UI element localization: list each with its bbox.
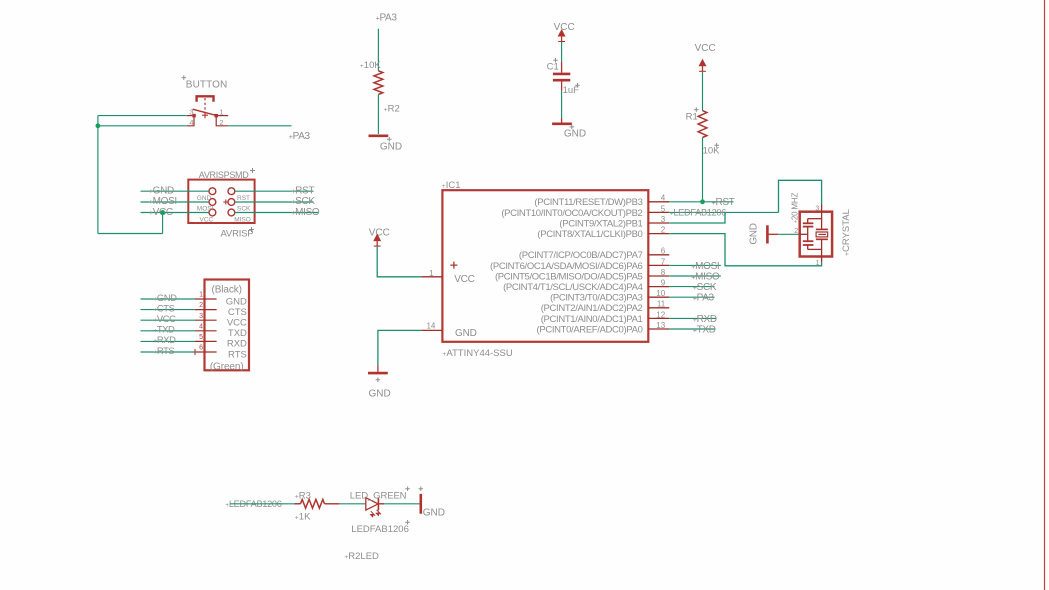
wire VCC row — [141, 319, 196, 321]
IC1 pin 11 PA2 — [648, 307, 669, 309]
svg-text:(PCINT9/XTAL2)PB1: (PCINT9/XTAL2)PB1 — [559, 218, 642, 229]
svg-text:(PCINT7/ICP/OC0B/ADC7)PA7: (PCINT7/ICP/OC0B/ADC7)PA7 — [519, 250, 643, 261]
svg-text:SCK: SCK — [237, 206, 251, 213]
wire PA3 to R2 — [377, 29, 379, 71]
svg-text:TXD: TXD — [228, 328, 247, 339]
svg-text:(PCINT0/AREF/ADC0)PA0: (PCINT0/AREF/ADC0)PA0 — [537, 324, 643, 335]
svg-text:+RXD: +RXD — [153, 334, 176, 345]
IC1 pin 13 PA0 — [648, 328, 669, 330]
svg-text:(PCINT10/INT0/OC0A/CKOUT)PB2: (PCINT10/INT0/OC0A/CKOUT)PB2 — [501, 208, 642, 219]
wire MOSI row — [141, 201, 210, 203]
IC1 pin 1 VCC — [421, 276, 442, 278]
svg-text:+RST: +RST — [712, 197, 735, 208]
svg-text:AVRISP: AVRISP — [221, 229, 254, 240]
svg-text:C1: C1 — [547, 62, 559, 73]
svg-text:+TXD: +TXD — [153, 324, 175, 335]
svg-text:+MISO: +MISO — [691, 272, 720, 283]
wire pin3 XTAL2 — [669, 212, 725, 223]
wire button pin2 to PA3 — [228, 125, 291, 127]
svg-text:2: 2 — [794, 228, 798, 235]
resonator Q1 C-CRYSTAL — [800, 205, 832, 263]
svg-text:(PCINT11/RESET/DW)PB3: (PCINT11/RESET/DW)PB3 — [534, 197, 642, 208]
svg-text:13: 13 — [656, 321, 665, 330]
wire TXD row — [141, 330, 196, 332]
svg-text:5: 5 — [661, 204, 666, 213]
svg-text:1: 1 — [219, 107, 223, 116]
wire VCC to R1 — [702, 72, 704, 111]
junction VCC — [160, 210, 165, 215]
IC1 pin 3 PB1 — [648, 222, 669, 224]
svg-text:10: 10 — [656, 289, 665, 298]
svg-text:4: 4 — [199, 323, 203, 330]
svg-text:RST: RST — [237, 195, 250, 202]
wire left vertical — [97, 116, 99, 234]
svg-text:12: 12 — [656, 310, 665, 319]
FTDI pin 6 RTS — [195, 351, 217, 353]
svg-text:+10K: +10K — [360, 60, 382, 71]
svg-text:LED_GREEN: LED_GREEN — [350, 490, 407, 501]
wire VCC row — [141, 212, 210, 214]
IC1 pin 2 PB0 — [648, 233, 669, 235]
svg-text:11: 11 — [657, 300, 666, 309]
svg-text:3: 3 — [189, 107, 193, 116]
IC1 pin 6 PA7 — [648, 254, 669, 256]
IC1 pin 12 PA1 — [648, 317, 669, 319]
IC1 pin 4 PB3 — [648, 201, 669, 203]
svg-text:GND: GND — [423, 508, 445, 519]
svg-text:5: 5 — [199, 334, 203, 341]
svg-text:RTS: RTS — [228, 349, 247, 360]
wire RST net — [669, 201, 733, 203]
wire PA3 (pin10) — [669, 296, 714, 298]
IC1 pin 9 PA4 — [648, 286, 669, 288]
svg-text:+R2: +R2 — [384, 104, 400, 115]
svg-text:14: 14 — [426, 322, 435, 331]
wire to button pin4 — [98, 125, 187, 127]
pushbutton BUTTON — [192, 96, 218, 118]
svg-text:+1K: +1K — [295, 512, 311, 523]
wire SCK — [669, 286, 714, 288]
wire VCC to pin1 — [377, 247, 421, 277]
svg-text:+RXD: +RXD — [693, 314, 717, 325]
wire CTS row — [141, 309, 196, 311]
svg-text:VCC: VCC — [227, 318, 247, 329]
FTDI pin 4 TXD — [195, 330, 217, 332]
svg-text:+GND: +GND — [153, 292, 177, 303]
wire SCK row — [235, 201, 314, 203]
svg-text:+CRYSTAL: +CRYSTAL — [841, 209, 852, 256]
svg-text:8: 8 — [661, 268, 666, 277]
resistor R3 — [294, 503, 300, 505]
button pin 4 — [187, 117, 194, 125]
svg-text:GND: GND — [226, 296, 247, 307]
svg-text:MISO: MISO — [234, 216, 251, 223]
wire pin14 to GND — [378, 330, 421, 365]
svg-text:(PCINT5/OC1B/MISO/DO/ADC5)PA5: (PCINT5/OC1B/MISO/DO/ADC5)PA5 — [495, 271, 643, 282]
IC1 pin 7 PA6 — [648, 264, 669, 266]
svg-text:3: 3 — [815, 206, 819, 213]
svg-text:4: 4 — [189, 118, 193, 127]
svg-text:10K: 10K — [703, 146, 721, 157]
wire R3 to LED — [339, 503, 366, 505]
IC1 pin 5 PB2 — [648, 211, 669, 213]
resistor R2 — [374, 71, 383, 95]
IC IC1 ATTINY44-SSU — [442, 190, 648, 342]
svg-text:+LEDFAB1206: +LEDFAB1206 — [670, 208, 726, 218]
svg-text:(PCINT3/T0/ADC3)PA3: (PCINT3/T0/ADC3)PA3 — [550, 293, 642, 304]
wire bottom to VCC net — [98, 233, 163, 235]
label BUTTON — [182, 75, 187, 80]
svg-text:LEDFAB1206: LEDFAB1206 — [351, 524, 409, 535]
capacitor C1 — [561, 62, 563, 73]
svg-text:GND: GND — [455, 328, 477, 339]
resistor R1 — [698, 111, 707, 138]
svg-text:GND: GND — [564, 128, 586, 139]
FTDI pin 3 VCC — [195, 319, 217, 321]
svg-text:+ATTINY44-SSU: +ATTINY44-SSU — [442, 348, 512, 359]
svg-text:7: 7 — [661, 257, 666, 266]
svg-text:9: 9 — [661, 279, 666, 288]
FTDI pin 2 CTS — [195, 309, 217, 311]
IC1 pin 10 PA3 — [648, 296, 669, 298]
svg-text:VCC: VCC — [369, 227, 390, 238]
svg-text:6: 6 — [199, 345, 203, 352]
wire GND row — [141, 298, 196, 300]
button pin 2 — [216, 117, 228, 125]
svg-text:+VCC: +VCC — [153, 313, 176, 324]
svg-text:CTS: CTS — [228, 307, 247, 318]
svg-text:4: 4 — [661, 194, 666, 203]
svg-text:(Black): (Black) — [211, 285, 241, 296]
svg-text:BUTTON: BUTTON — [186, 80, 228, 91]
svg-text:(PCINT1/AIN0/ADC1)PA1: (PCINT1/AIN0/ADC1)PA1 — [541, 314, 643, 325]
svg-text:(PCINT8/XTAL1/CLKI)PB0: (PCINT8/XTAL1/CLKI)PB0 — [537, 229, 642, 240]
svg-text:+MISO: +MISO — [291, 207, 320, 218]
wire GND to crystal pin2 — [778, 233, 799, 235]
svg-text:+TXD: +TXD — [693, 325, 716, 336]
wire GND row — [141, 190, 210, 192]
svg-text:+SCK: +SCK — [693, 282, 717, 293]
wire MISO — [669, 275, 721, 277]
svg-text:1: 1 — [199, 292, 203, 299]
connector FTDI header — [205, 280, 250, 373]
svg-text:2: 2 — [661, 226, 666, 235]
wire pin2 XTAL1 to crystal — [669, 234, 821, 266]
svg-text:+RTS: +RTS — [153, 345, 174, 356]
svg-text:GND: GND — [748, 223, 759, 244]
svg-text:+PA3: +PA3 — [376, 13, 398, 24]
svg-text:+PA3: +PA3 — [289, 131, 311, 142]
svg-text:+R2LED: +R2LED — [344, 551, 379, 562]
wire LED to GND — [384, 503, 420, 505]
svg-text:2: 2 — [219, 118, 223, 127]
ground (R2) — [369, 135, 389, 138]
svg-text:3: 3 — [661, 215, 666, 224]
svg-text:2: 2 — [199, 302, 203, 309]
wire RXD row — [141, 340, 196, 342]
svg-text:6: 6 — [661, 247, 666, 256]
button pin 3 — [187, 115, 193, 117]
svg-text:1: 1 — [429, 269, 434, 278]
svg-text:(PCINT4/T1/SCL/USCK/ADC4)PA4: (PCINT4/T1/SCL/USCK/ADC4)PA4 — [503, 282, 642, 293]
svg-text:+IC1: +IC1 — [442, 180, 461, 191]
junction RST — [700, 199, 705, 204]
svg-text:(PCINT6/OC1A/SDA/MOSI/ADC6)PA6: (PCINT6/OC1A/SDA/MOSI/ADC6)PA6 — [490, 261, 643, 272]
ground (C1) — [561, 118, 563, 123]
svg-text:AVRISPSMD: AVRISPSMD — [199, 170, 249, 180]
ground (LED) — [419, 494, 422, 514]
wire RXD — [669, 317, 716, 319]
svg-text:VCC: VCC — [200, 216, 214, 223]
svg-text:VCC: VCC — [554, 22, 575, 33]
wire button pin3 to left — [98, 115, 187, 117]
wire MISO row — [235, 212, 318, 214]
svg-text:RXD: RXD — [227, 339, 247, 350]
IC1 pin 8 PA5 — [648, 275, 669, 277]
svg-text:+GND: +GND — [149, 185, 174, 196]
ground (crystal) — [766, 225, 769, 243]
svg-text:+MOSI: +MOSI — [149, 196, 177, 207]
svg-text:GND: GND — [369, 389, 391, 400]
svg-text:1: 1 — [816, 260, 820, 267]
svg-text:+MOSI: +MOSI — [691, 261, 719, 272]
wire RTS row — [141, 351, 196, 353]
wire C1 to GND — [561, 91, 563, 118]
svg-text:VCC: VCC — [454, 274, 475, 285]
wire crystal top loop — [779, 180, 822, 212]
wire RST row — [235, 190, 314, 192]
junction — [96, 123, 101, 128]
svg-text:1uF: 1uF — [563, 85, 580, 96]
svg-text:R1: R1 — [686, 112, 698, 123]
svg-text:+SCK: +SCK — [291, 196, 315, 207]
wire up to VCC junction — [162, 213, 164, 234]
wire TXD — [669, 328, 715, 330]
FTDI pin 1 GND — [195, 298, 217, 300]
svg-text:+20 MHZ: +20 MHZ — [791, 193, 800, 224]
ground (IC1) — [377, 366, 379, 372]
svg-text:VCC: VCC — [695, 43, 716, 54]
wire R2 to GND — [377, 95, 379, 135]
wire to R3 — [230, 503, 301, 505]
svg-text:+PA3: +PA3 — [693, 293, 715, 304]
svg-text:GND: GND — [380, 141, 402, 152]
svg-text:(PCINT2/AIN1/ADC2)PA2: (PCINT2/AIN1/ADC2)PA2 — [541, 303, 643, 314]
wire R1 to RST net — [702, 138, 704, 202]
LED LED_GREEN — [366, 497, 384, 516]
svg-text:+CTS: +CTS — [153, 302, 174, 313]
svg-text:MOSI: MOSI — [197, 206, 214, 213]
button pin 1 — [218, 115, 228, 117]
FTDI pin 5 RXD — [195, 340, 217, 342]
connector AVRISPSMD — [188, 180, 254, 224]
svg-text:+RST: +RST — [291, 185, 314, 196]
svg-text:GND: GND — [197, 195, 212, 202]
wire VCC to C1 — [561, 42, 563, 62]
wire pin5 LEDFAB1206 net — [669, 211, 778, 213]
svg-text:3: 3 — [199, 313, 203, 320]
svg-text:(Green): (Green) — [210, 361, 244, 372]
wire MOSI — [669, 264, 721, 266]
IC1 pin 14 GND — [421, 329, 442, 331]
